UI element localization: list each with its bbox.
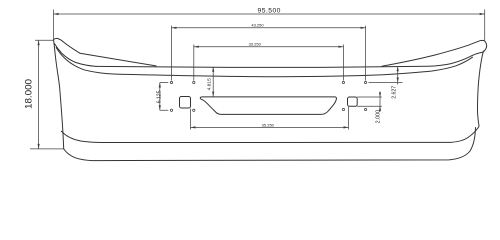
bolt hole upper-left outer bbox=[170, 81, 172, 83]
arrow 33.250 right bbox=[338, 46, 343, 48]
tow pin cover right bbox=[348, 97, 358, 106]
bumper lower face line bbox=[61, 126, 479, 143]
dim 18.000 line bbox=[38, 41, 40, 149]
dim 4.815 line bbox=[212, 67, 214, 97]
bolt hole lower-right inner bbox=[342, 108, 344, 110]
dim 2.627 line bbox=[397, 66, 399, 84]
arrow 95.500 left bbox=[54, 13, 59, 15]
arrow 4.815 bottom bbox=[212, 92, 214, 97]
bumper top-left curl outer edge bbox=[54, 38, 157, 66]
arrow 43.250 right bbox=[361, 27, 366, 29]
arrow 2.627 top bbox=[397, 66, 399, 71]
arrow 2.000 top bbox=[379, 93, 381, 98]
dim 18.000 ext bottom bbox=[30, 148, 64, 150]
bolt hole upper-right outer bbox=[364, 81, 366, 83]
svg-text:2.000: 2.000 bbox=[376, 110, 382, 124]
bumper left side edge bbox=[54, 40, 64, 149]
bolt hole upper-left inner bbox=[193, 81, 195, 83]
arrow 95.500 right bbox=[480, 13, 485, 15]
arrow 18.000 bottom bbox=[38, 144, 40, 149]
dim 6.125 bracket bbox=[160, 83, 169, 111]
arrow 6.125 top bbox=[159, 83, 161, 88]
arrow 2.000 bottom bbox=[379, 106, 381, 111]
dim 95.500 line bbox=[54, 13, 485, 15]
arrow 4.815 top bbox=[212, 67, 214, 72]
svg-text:18.000: 18.000 bbox=[24, 79, 34, 109]
bumper bottom edge bbox=[64, 128, 476, 161]
dim 33.250 ext left bbox=[193, 45, 195, 81]
dim 35.250 ext left bbox=[190, 109, 192, 130]
svg-text:35.250: 35.250 bbox=[262, 122, 275, 127]
arrow 33.250 left bbox=[194, 46, 199, 48]
svg-text:43.250: 43.250 bbox=[251, 22, 264, 27]
arrow 2.627 bottom bbox=[397, 78, 399, 83]
bumper face crease line bbox=[56, 48, 472, 77]
dim 35.250 ext right bbox=[348, 107, 350, 130]
dim 35.250 line bbox=[191, 126, 349, 128]
svg-text:6.125: 6.125 bbox=[156, 90, 162, 103]
tow pin cover left bbox=[180, 97, 191, 109]
svg-text:4.815: 4.815 bbox=[206, 78, 212, 91]
dim 95.500 ext left bbox=[53, 10, 55, 40]
svg-text:33.250: 33.250 bbox=[249, 41, 262, 46]
bolt hole upper-right inner bbox=[342, 81, 344, 83]
bolt hole lower-right outer bbox=[364, 108, 366, 110]
arrow 18.000 top bbox=[38, 40, 40, 45]
dim 18.000 ext top bbox=[35, 39, 54, 41]
dim 95.500 ext right bbox=[484, 10, 486, 42]
bumper top-right curl outer edge bbox=[382, 40, 487, 66]
bumper top face line bbox=[96, 52, 483, 67]
bumper right side edge bbox=[477, 51, 483, 126]
dim 43.250 line bbox=[172, 27, 366, 29]
svg-text:2.627: 2.627 bbox=[392, 86, 398, 99]
dim 2.627 ref line bbox=[369, 82, 403, 84]
dim 33.250 ext right bbox=[342, 45, 344, 81]
arrow 6.125 bottom bbox=[159, 105, 161, 110]
dim 43.250 ext right bbox=[365, 26, 367, 81]
arrow 35.250 right bbox=[344, 126, 349, 128]
dim 43.250 ext left bbox=[171, 26, 173, 81]
dim 2.000 line bbox=[379, 92, 381, 112]
svg-text:95.500: 95.500 bbox=[258, 8, 281, 15]
bumper top-left curl inner lip bbox=[54, 44, 96, 67]
bolt hole lower-left outer bbox=[170, 109, 172, 111]
bolt hole lower-left inner bbox=[193, 109, 195, 111]
license plate recess bbox=[200, 97, 336, 115]
dim 2.000 ext top bbox=[357, 96, 382, 98]
arrow 35.250 left bbox=[191, 126, 196, 128]
dim 2.000 ext bottom bbox=[357, 105, 382, 107]
dim 33.250 line bbox=[194, 46, 344, 48]
arrow 43.250 left bbox=[172, 27, 177, 29]
